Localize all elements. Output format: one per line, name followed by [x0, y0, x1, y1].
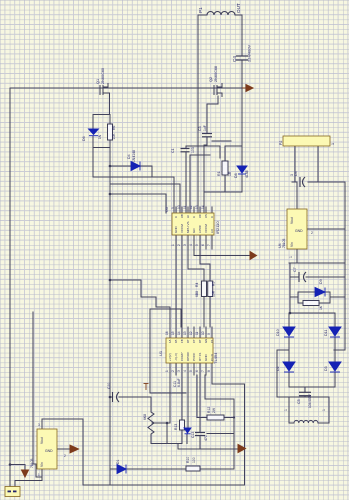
svg-text:224/400V: 224/400V	[247, 45, 252, 62]
svg-text:13: 13	[195, 205, 199, 209]
svg-text:12: 12	[189, 331, 193, 335]
svg-text:1B: 1B	[174, 339, 178, 343]
svg-text:1: 1	[38, 473, 40, 477]
svg-text:D2: D2	[276, 366, 280, 371]
svg-text:VCCM: VCCM	[204, 224, 208, 233]
svg-text:Vin: Vin	[40, 462, 44, 467]
svg-text:LPRC: LPRC	[198, 224, 202, 233]
svg-text:R1: R1	[217, 171, 221, 176]
svg-text:CT: CT	[192, 339, 196, 343]
svg-text:1: 1	[322, 409, 326, 411]
svg-text:16: 16	[165, 331, 169, 335]
svg-text:R12: R12	[207, 407, 211, 413]
svg-text:X: X	[174, 216, 178, 218]
svg-text:R6: R6	[112, 126, 116, 130]
svg-text:VCCM: VCCM	[180, 224, 184, 233]
svg-text:8: 8	[207, 370, 211, 372]
svg-text:5: 5	[195, 244, 199, 246]
svg-text:6: 6	[195, 370, 199, 372]
svg-text:D8: D8	[234, 173, 238, 178]
svg-text:1N: 1N	[98, 134, 102, 139]
svg-text:VC: VC	[198, 214, 202, 218]
svg-text:4148: 4148	[245, 170, 249, 178]
svg-text:5: 5	[189, 370, 193, 372]
svg-text:R4: R4	[195, 283, 199, 287]
svg-text:D11: D11	[324, 330, 328, 336]
svg-text:14: 14	[177, 331, 181, 335]
svg-text:OUT: OUT	[236, 3, 241, 13]
svg-text:-V(-V): -V(-V)	[174, 353, 178, 361]
svg-text:1: 1	[331, 143, 335, 145]
svg-text:3: 3	[183, 244, 187, 246]
svg-text:DT: DT	[186, 339, 190, 343]
svg-text:C1: C1	[210, 339, 214, 343]
svg-text:U5: U5	[164, 206, 169, 212]
svg-text:2N60C60: 2N60C60	[101, 68, 105, 84]
svg-text:C1: C1	[171, 148, 175, 153]
svg-text:U1: U1	[158, 350, 163, 356]
svg-text:D6: D6	[82, 136, 86, 141]
svg-text:3: 3	[177, 370, 181, 372]
svg-text:4: 4	[189, 244, 193, 246]
svg-text:C10: C10	[107, 383, 111, 389]
svg-text:C5: C5	[297, 399, 301, 404]
svg-text:DP/DC: DP/DC	[186, 351, 190, 361]
svg-text:9: 9	[171, 207, 175, 209]
svg-text:D3: D3	[324, 366, 328, 371]
svg-text:+V(V): +V(V)	[168, 353, 172, 361]
svg-text:P1: P1	[198, 7, 203, 13]
svg-text:Vin: Vin	[290, 242, 294, 247]
svg-text:C13: C13	[191, 432, 195, 438]
svg-text:GN: GN	[204, 339, 208, 343]
svg-text:6: 6	[201, 244, 205, 246]
svg-text:11: 11	[195, 331, 199, 335]
svg-text:D9: D9	[319, 279, 323, 284]
svg-text:VB: VB	[180, 214, 184, 218]
svg-text:GND: GND	[295, 229, 303, 233]
svg-text:1uF: 1uF	[203, 125, 207, 131]
svg-text:7: 7	[207, 244, 211, 246]
svg-text:2N60C68: 2N60C68	[214, 66, 218, 82]
svg-text:X: X	[210, 216, 214, 218]
svg-text:IR2110: IR2110	[215, 221, 220, 234]
svg-text:10: 10	[201, 331, 205, 335]
svg-text:3: 3	[38, 423, 40, 427]
svg-text:RT C1: RT C1	[198, 352, 202, 361]
svg-text:1: 1	[171, 244, 175, 246]
svg-text:FB: FB	[180, 339, 184, 343]
svg-text:C7: C7	[293, 267, 297, 272]
svg-text:Q1: Q1	[96, 79, 100, 84]
svg-text:GND: GND	[174, 226, 178, 234]
svg-text:4: 4	[183, 370, 187, 372]
svg-text:1: 1	[284, 409, 288, 411]
svg-text:6B8: 6B8	[195, 291, 199, 297]
svg-text:103: 103	[191, 147, 195, 153]
svg-text:P2: P2	[279, 141, 283, 145]
svg-text:2: 2	[64, 454, 66, 458]
svg-text:D1: D1	[116, 460, 120, 464]
svg-text:7: 7	[201, 370, 205, 372]
svg-text:Q2: Q2	[209, 77, 213, 82]
svg-text:78L05: 78L05	[30, 458, 34, 468]
svg-text:Vout: Vout	[290, 217, 294, 224]
svg-text:C4: C4	[232, 56, 237, 62]
svg-text:PVCC: PVCC	[192, 352, 196, 361]
svg-text:1: 1	[165, 370, 169, 372]
svg-text:1N4148: 1N4148	[132, 150, 136, 162]
svg-text:HI: HI	[186, 215, 190, 218]
svg-text:R5: R5	[212, 282, 216, 286]
svg-text:1: 1	[289, 256, 293, 258]
svg-text:13: 13	[183, 331, 187, 335]
svg-text:GND: GND	[204, 354, 208, 362]
svg-text:Vout: Vout	[40, 437, 44, 444]
svg-text:9: 9	[207, 333, 211, 335]
svg-text:2W: 2W	[212, 407, 216, 413]
svg-text:C3: C3	[198, 126, 202, 131]
svg-text:78L05: 78L05	[282, 238, 286, 248]
svg-text:R13: R13	[174, 424, 178, 430]
svg-text:1A: 1A	[168, 339, 172, 343]
svg-text:15: 15	[171, 331, 175, 335]
svg-text:14: 14	[201, 205, 205, 209]
svg-text:D4: D4	[294, 171, 298, 176]
svg-text:10: 10	[177, 205, 181, 209]
svg-text:C1 D: C1 D	[210, 353, 214, 361]
svg-text:11: 11	[183, 205, 187, 209]
svg-text:VS: VS	[204, 214, 208, 218]
svg-text:100: 100	[192, 457, 196, 463]
svg-text:D10: D10	[276, 329, 280, 336]
svg-text:1K: 1K	[319, 305, 323, 310]
svg-text:6.8uF: 6.8uF	[177, 378, 181, 387]
svg-text:MPH VS: MPH VS	[186, 221, 190, 233]
svg-text:15R: 15R	[212, 290, 216, 297]
svg-text:D4: D4	[127, 154, 131, 159]
svg-text:GND: GND	[45, 449, 53, 453]
svg-text:10K: 10K	[112, 133, 116, 140]
svg-text:2: 2	[171, 370, 175, 372]
svg-text:6K8: 6K8	[143, 414, 147, 420]
svg-text:R10: R10	[186, 457, 190, 463]
svg-text:COM7: COM7	[180, 352, 184, 361]
svg-text:470: 470	[204, 435, 208, 441]
svg-text:X: X	[192, 216, 196, 218]
svg-text:1R: 1R	[228, 171, 232, 176]
svg-text:2: 2	[311, 231, 313, 235]
svg-text:104/400V: 104/400V	[308, 393, 312, 408]
svg-text:2: 2	[177, 244, 181, 246]
svg-text:LO: LO	[210, 228, 214, 233]
svg-text:12: 12	[189, 205, 193, 209]
svg-text:RT: RT	[198, 339, 202, 343]
